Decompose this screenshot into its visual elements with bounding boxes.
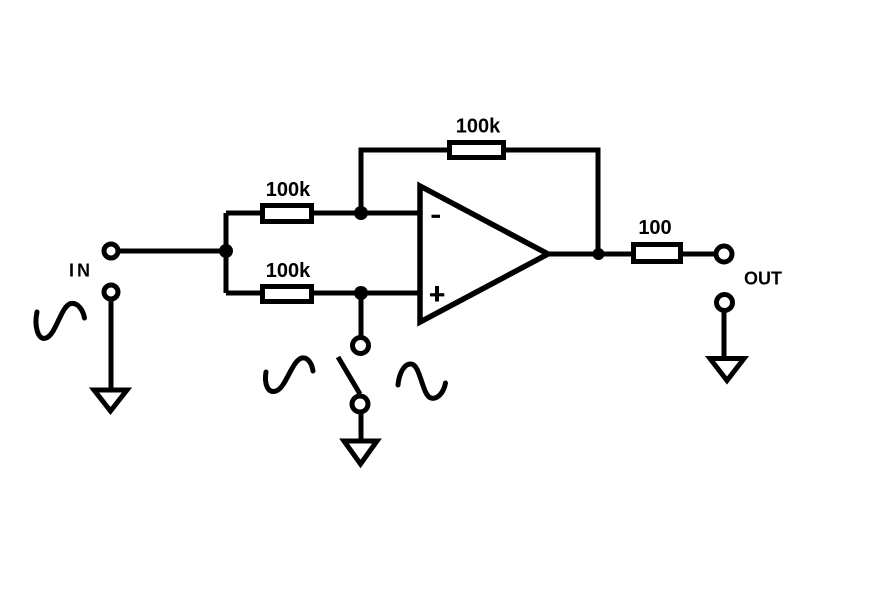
- svg-text:100: 100: [638, 217, 671, 239]
- svg-text:100k: 100k: [266, 179, 311, 201]
- svg-text:IN: IN: [69, 261, 93, 281]
- svg-text:OUT: OUT: [744, 269, 782, 289]
- svg-text:100k: 100k: [266, 260, 311, 282]
- svg-text:100k: 100k: [456, 116, 501, 138]
